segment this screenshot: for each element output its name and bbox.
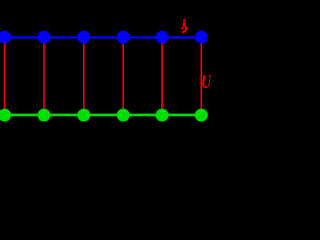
node: blue node 3 — [77, 31, 90, 44]
wire: red vertical link 3 — [83, 37, 85, 115]
wire: red vertical link 5 — [161, 37, 163, 115]
label: current i (foot serif wing) — [181, 28, 183, 29]
svg-text:U: U — [201, 72, 212, 92]
wire: red vertical link 4 — [122, 37, 124, 115]
node: green node 5 — [156, 109, 169, 122]
node: blue node 1 — [0, 31, 11, 44]
node: green node 2 — [38, 109, 51, 122]
wire: red vertical link 1 — [4, 37, 6, 115]
node: green node 3 — [77, 109, 90, 122]
node: blue node 6 — [195, 31, 208, 44]
node: blue node 4 — [117, 31, 130, 44]
label: current i (tittle) — [183, 19, 186, 21]
wire: red vertical link 2 — [43, 37, 45, 115]
node: blue node 5 — [156, 31, 169, 44]
node: green node 4 — [117, 109, 130, 122]
node: blue node 2 — [38, 31, 51, 44]
node: green node 1 — [0, 109, 11, 122]
wire: red vertical link 6 — [200, 37, 202, 115]
label: current i (exit stroke curl) — [182, 27, 186, 33]
wire: blue top conductor — [5, 36, 202, 39]
label: current i (stem) — [182, 22, 185, 27]
node: green node 6 — [195, 109, 208, 122]
wire: green bottom conductor — [5, 114, 202, 117]
